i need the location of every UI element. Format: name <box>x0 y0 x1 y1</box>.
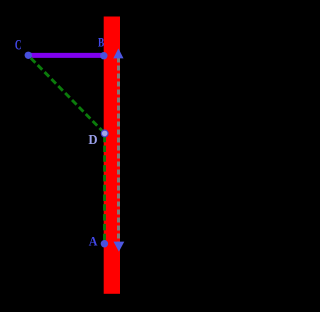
svg-text:D: D <box>88 133 97 148</box>
svg-text:B: B <box>98 36 105 50</box>
svg-text:A: A <box>89 233 98 248</box>
svg-text:C: C <box>15 37 22 53</box>
